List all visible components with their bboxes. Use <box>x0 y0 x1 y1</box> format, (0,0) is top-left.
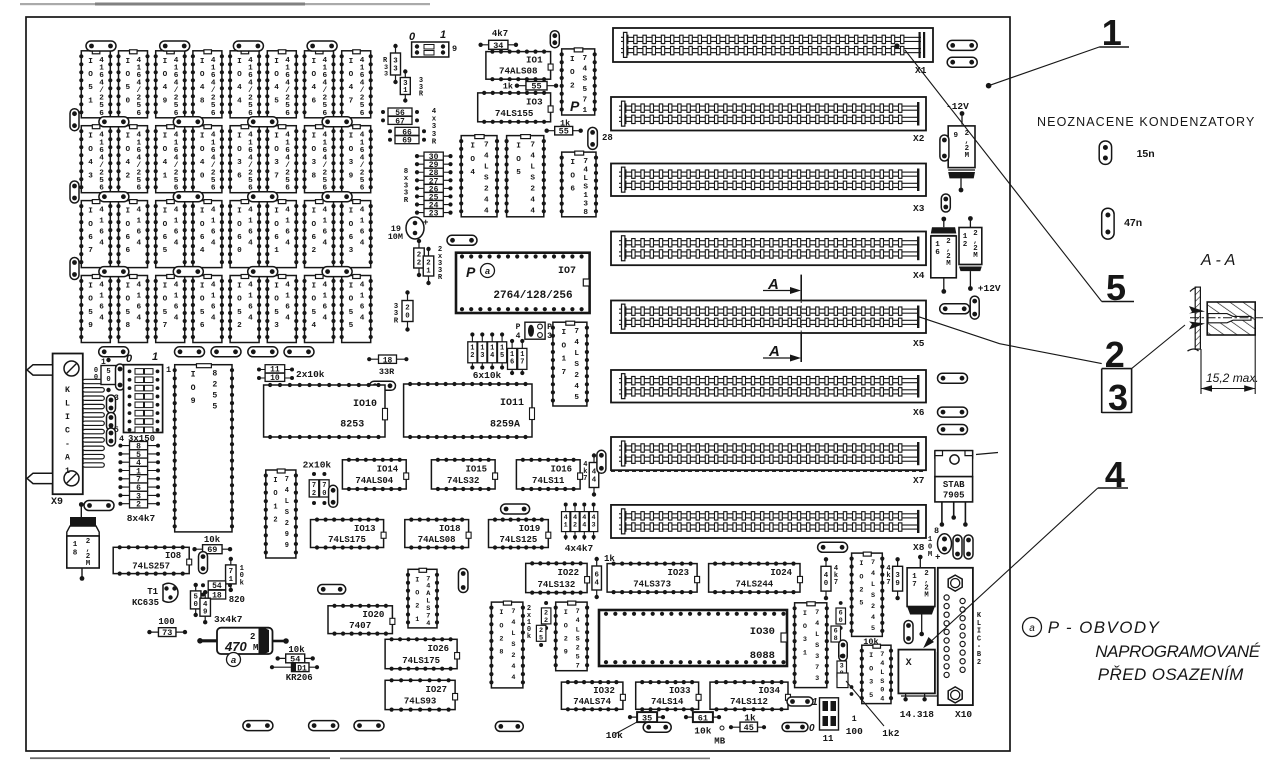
DRAM IO49 4164/256 <box>154 50 187 118</box>
svg-text:4: 4 <box>484 208 489 216</box>
IC IO35 74LS04 <box>860 644 893 703</box>
svg-text:O: O <box>163 146 168 154</box>
svg-text:3: 3 <box>895 572 900 580</box>
svg-text:2: 2 <box>136 501 141 510</box>
IC IO34 74LS112 <box>710 680 791 711</box>
svg-text:O: O <box>274 146 279 154</box>
svg-text:O: O <box>349 71 354 79</box>
slot connector X8 <box>611 505 926 553</box>
svg-text:4: 4 <box>285 207 290 215</box>
svg-text:2: 2 <box>237 322 242 330</box>
jumper wire row gap 2-3 <box>248 192 278 202</box>
svg-text:T1: T1 <box>147 587 158 597</box>
svg-text:4: 4 <box>592 477 597 485</box>
svg-text:+: + <box>935 553 940 563</box>
jumper wire x9 area a <box>107 395 116 413</box>
svg-text:O: O <box>125 71 130 79</box>
IC IO25 74LS245 <box>850 552 885 636</box>
svg-text:P: P <box>466 264 476 280</box>
jumper wire left edge 2 <box>70 181 79 203</box>
svg-text:5: 5 <box>539 635 543 643</box>
svg-text:5: 5 <box>237 309 242 317</box>
IC IO16 74LS11 <box>516 458 582 491</box>
svg-text:4x4k7: 4x4k7 <box>565 543 594 554</box>
svg-text:2: 2 <box>574 372 579 380</box>
jumper wire left of dipswitch <box>116 364 125 390</box>
capacitor 2 470M electrolytic <box>197 628 289 667</box>
svg-text:O: O <box>311 296 316 304</box>
svg-text:15,2 max.: 15,2 max. <box>1206 371 1259 385</box>
svg-text:9: 9 <box>895 580 899 588</box>
svg-text:6: 6 <box>99 304 104 312</box>
DRAM IO65 4164 <box>154 200 187 268</box>
svg-text:7: 7 <box>815 609 819 617</box>
DRAM IO38 4164/256 <box>302 125 335 193</box>
svg-text:4: 4 <box>1105 454 1125 495</box>
capacitor 16 2,2M electrolytic <box>931 217 957 294</box>
svg-text:8253: 8253 <box>340 420 364 431</box>
svg-text:I: I <box>570 159 575 167</box>
resistor 49 <box>200 590 211 624</box>
svg-text:O: O <box>237 71 242 79</box>
svg-text:I: I <box>125 58 130 66</box>
svg-text:6x10k: 6x10k <box>473 370 502 381</box>
svg-text:7: 7 <box>583 158 588 166</box>
svg-text:I: I <box>237 283 242 291</box>
svg-text:4: 4 <box>530 197 535 205</box>
svg-text:O: O <box>274 71 279 79</box>
DRAM IO53 4164 <box>265 275 298 343</box>
svg-text:IO30: IO30 <box>750 626 775 638</box>
svg-text:18: 18 <box>383 356 393 365</box>
DRAM IO66 4164 <box>116 200 149 268</box>
resistor 68 between IO31 IO25 <box>831 626 841 643</box>
svg-text:O: O <box>88 296 93 304</box>
svg-text:X4: X4 <box>913 270 925 281</box>
svg-text:5: 5 <box>88 309 93 317</box>
svg-text:I: I <box>803 610 807 618</box>
jumper wire row gap 3-1 <box>99 267 129 277</box>
svg-text:4: 4 <box>136 282 141 290</box>
svg-text:5: 5 <box>212 403 217 412</box>
svg-text:4: 4 <box>322 282 327 290</box>
svg-text:4: 4 <box>871 614 875 622</box>
jumper wire below +12V <box>940 304 970 314</box>
svg-text:5: 5 <box>163 309 168 317</box>
resistor 18b <box>201 590 226 600</box>
jumper wire row gap 2-4 <box>322 192 352 202</box>
svg-text:O: O <box>163 296 168 304</box>
svg-text:7: 7 <box>349 97 354 105</box>
svg-text:74LS155: 74LS155 <box>495 108 534 119</box>
svg-text:8x4k7: 8x4k7 <box>127 513 156 524</box>
svg-text:1: 1 <box>136 218 141 226</box>
resistor 23 (33R array) <box>415 209 453 219</box>
svg-text:L: L <box>871 581 875 589</box>
svg-text:7: 7 <box>285 476 289 484</box>
svg-text:I: I <box>415 576 419 584</box>
jumper wire right of C8 b <box>964 535 973 559</box>
DRAM IO42 4164/256 <box>116 125 149 193</box>
svg-text:4: 4 <box>576 617 580 625</box>
DRAM IO63 4164 <box>340 200 373 268</box>
resistor pair 11/10 (2x10k) <box>257 365 325 383</box>
svg-text:O: O <box>803 623 807 631</box>
svg-text:O: O <box>237 146 242 154</box>
svg-text:a: a <box>485 266 490 276</box>
svg-text:4: 4 <box>211 240 216 248</box>
svg-text:3: 3 <box>815 653 819 661</box>
svg-text:0: 0 <box>824 580 829 588</box>
resistor 26 (33R array) <box>415 184 453 194</box>
svg-text:0: 0 <box>880 687 884 695</box>
svg-text:61: 61 <box>698 714 708 724</box>
svg-text:IO26: IO26 <box>427 644 449 654</box>
svg-text:1: 1 <box>211 218 216 226</box>
svg-text:9: 9 <box>203 608 207 616</box>
svg-text:7: 7 <box>583 475 587 483</box>
svg-text:4: 4 <box>574 339 579 347</box>
resistor NR <box>837 673 853 696</box>
svg-text:6: 6 <box>174 304 179 312</box>
svg-text:L: L <box>583 175 588 183</box>
svg-text:1: 1 <box>152 351 158 363</box>
svg-text:5: 5 <box>349 309 354 317</box>
svg-text:1: 1 <box>963 233 968 241</box>
IC IO18 74ALS08 <box>405 518 471 550</box>
svg-text:9: 9 <box>285 531 289 539</box>
svg-text:I: I <box>499 609 503 617</box>
svg-text:4: 4 <box>136 315 141 323</box>
svg-text:6: 6 <box>136 110 141 118</box>
svg-text:6: 6 <box>200 234 205 242</box>
svg-text:74ALS08: 74ALS08 <box>418 535 456 545</box>
svg-text:6: 6 <box>594 572 599 580</box>
svg-text:I: I <box>274 208 279 216</box>
svg-text:4: 4 <box>511 619 515 627</box>
svg-text:74LS175: 74LS175 <box>328 535 366 545</box>
svg-text:5: 5 <box>574 394 579 402</box>
svg-text:5: 5 <box>106 368 110 376</box>
jumper wire below R35 <box>643 722 671 732</box>
svg-text:6: 6 <box>248 304 253 312</box>
jumper wire row gap 1-4 <box>322 117 352 127</box>
svg-text:C: C <box>65 427 70 436</box>
svg-text:IO15: IO15 <box>465 464 487 474</box>
slot connector X6 <box>611 370 926 418</box>
svg-text:4: 4 <box>594 580 599 588</box>
jumper wire left edge 3 <box>70 258 79 280</box>
svg-text:74ALS04: 74ALS04 <box>355 476 393 486</box>
svg-text:+12V: +12V <box>978 283 1001 294</box>
svg-text:3: 3 <box>384 71 388 79</box>
svg-text:5: 5 <box>582 86 587 94</box>
svg-text:5: 5 <box>88 84 93 92</box>
resistor 50 <box>190 583 201 617</box>
svg-text:1k: 1k <box>503 82 513 92</box>
svg-text:3: 3 <box>393 58 398 66</box>
svg-text:1: 1 <box>564 522 568 530</box>
svg-text:I: I <box>125 208 130 216</box>
resistor 34 body <box>478 40 518 51</box>
jumper wire left of IO20 <box>318 585 346 595</box>
leader line fragment near STAB <box>976 453 998 455</box>
DRAM IO43 4164/256 <box>79 125 112 193</box>
svg-text:O: O <box>163 71 168 79</box>
svg-text:0: 0 <box>839 617 843 625</box>
svg-text:O: O <box>163 221 168 229</box>
svg-text:L: L <box>977 620 981 628</box>
svg-text:74ALS08: 74ALS08 <box>499 66 538 77</box>
capacitor symbol 15n <box>1099 141 1154 164</box>
IC IO13 74LS175 <box>311 518 387 550</box>
svg-text:6: 6 <box>360 304 365 312</box>
svg-text:4: 4 <box>530 153 535 161</box>
svg-text:6: 6 <box>136 185 141 193</box>
svg-text:L: L <box>815 631 819 639</box>
svg-text:M: M <box>928 551 932 559</box>
svg-text:4: 4 <box>322 315 327 323</box>
svg-text:S: S <box>582 76 587 84</box>
svg-text:6: 6 <box>99 229 104 237</box>
jumper wire bottom middle <box>495 721 523 731</box>
jumper wire above IO10 <box>370 381 396 390</box>
resistor 69 body <box>192 545 232 556</box>
slot connector X7 <box>611 437 926 486</box>
IC IO22 74LS132 <box>526 561 590 594</box>
svg-text:4: 4 <box>880 660 884 668</box>
svg-text:O: O <box>470 156 475 164</box>
svg-text:1: 1 <box>99 218 104 226</box>
jumper wire bottom b <box>309 721 339 731</box>
svg-text:L: L <box>574 350 579 358</box>
resistor 27 (33R array) <box>415 176 453 186</box>
svg-text:C: C <box>977 635 981 643</box>
svg-text:M: M <box>86 560 91 568</box>
jumper wire right of X6 c <box>938 425 968 435</box>
svg-text:I: I <box>470 143 475 151</box>
svg-text:7: 7 <box>229 568 233 576</box>
svg-text:S: S <box>576 635 580 643</box>
svg-text:7: 7 <box>815 664 819 672</box>
resistor 21 (2x33R) <box>423 247 434 285</box>
svg-text:IO23: IO23 <box>667 568 689 578</box>
jumper wire below memory 2 <box>175 347 205 357</box>
svg-text:1: 1 <box>852 714 857 724</box>
svg-text:X5: X5 <box>913 338 925 349</box>
svg-text:4: 4 <box>311 322 316 330</box>
svg-text:4: 4 <box>174 282 179 290</box>
IC IO15 74LS32 <box>431 458 497 491</box>
svg-text:1: 1 <box>285 293 290 301</box>
svg-text:R: R <box>404 197 409 205</box>
jumper wire row gap 3-2 <box>173 267 203 277</box>
svg-text:7: 7 <box>576 608 580 616</box>
svg-text:P: P <box>570 98 580 114</box>
svg-text:6: 6 <box>174 229 179 237</box>
svg-text:X10: X10 <box>955 709 972 720</box>
svg-text:O: O <box>311 221 316 229</box>
svg-text:O: O <box>200 296 205 304</box>
IC IO5 74LS244 <box>505 135 546 217</box>
svg-text:6: 6 <box>311 234 316 242</box>
section mark A lower <box>763 333 801 362</box>
jumper wire below memory 4 <box>248 347 278 357</box>
svg-text:S: S <box>484 175 489 183</box>
svg-text:4: 4 <box>163 159 168 167</box>
svg-text:0: 0 <box>193 601 198 609</box>
svg-text:6: 6 <box>360 185 365 193</box>
svg-text:I: I <box>237 133 242 141</box>
svg-text:1: 1 <box>136 293 141 301</box>
jumper wire bottom a <box>243 721 273 731</box>
svg-text:74LS175: 74LS175 <box>402 656 440 666</box>
svg-text:IO18: IO18 <box>439 524 461 534</box>
svg-text:a: a <box>1029 623 1035 634</box>
svg-text:L: L <box>484 164 489 172</box>
IC IO21 74ALS74 <box>406 568 439 628</box>
svg-text:4: 4 <box>815 620 819 628</box>
svg-text:5: 5 <box>274 97 279 105</box>
svg-text:2: 2 <box>573 522 577 530</box>
crystal X 14.318 <box>898 650 937 720</box>
svg-text:O: O <box>499 622 503 630</box>
svg-text:O: O <box>859 573 863 581</box>
svg-text:9: 9 <box>349 172 354 180</box>
resistor 44 right of IO16 body <box>589 453 599 496</box>
svg-text:2: 2 <box>250 632 255 642</box>
svg-text:O: O <box>349 146 354 154</box>
jumper wire above IO19 <box>501 504 530 514</box>
svg-text:5: 5 <box>516 169 521 177</box>
capacitor 8 10M <box>928 526 952 563</box>
svg-text:1: 1 <box>248 218 253 226</box>
svg-text:1: 1 <box>285 218 290 226</box>
jumper wire left edge 1 <box>70 109 79 131</box>
svg-text:IO13: IO13 <box>354 524 376 534</box>
svg-text:7: 7 <box>88 247 93 255</box>
resistor 39 body <box>893 557 903 600</box>
section mark A upper <box>763 275 801 301</box>
svg-text:74LS257: 74LS257 <box>132 561 170 571</box>
svg-text:3: 3 <box>274 322 279 330</box>
svg-text:I: I <box>200 58 205 66</box>
svg-text:I: I <box>88 283 93 291</box>
DRAM IO57 4164 <box>154 275 187 343</box>
svg-text:5: 5 <box>349 322 354 330</box>
svg-text:2: 2 <box>470 352 474 360</box>
DRAM IO51 4164/256 <box>79 50 112 118</box>
DRAM IO36 4164/256 <box>228 125 261 193</box>
svg-text:0: 0 <box>809 723 815 734</box>
jumper wire right of C19 <box>447 235 477 245</box>
svg-text:7: 7 <box>520 359 524 367</box>
svg-text:100: 100 <box>846 726 863 737</box>
IC IO20 7407 <box>328 604 395 636</box>
jumper wire row gap 3-4 <box>322 267 352 277</box>
svg-text:7: 7 <box>582 97 587 105</box>
svg-text:X6: X6 <box>913 407 925 418</box>
jumper wire script1 <box>787 697 813 706</box>
svg-text:74LS93: 74LS93 <box>404 697 436 707</box>
svg-text:7: 7 <box>312 482 316 490</box>
svg-text:1: 1 <box>935 241 940 249</box>
svg-text:5: 5 <box>859 600 863 608</box>
svg-text:4: 4 <box>200 159 205 167</box>
IC IO9 8255 <box>173 364 235 532</box>
DRAM IO48 4164/256 <box>191 50 224 118</box>
svg-text:O: O <box>570 69 575 77</box>
IC IO17 74LS245 <box>551 321 589 406</box>
svg-text:K: K <box>65 386 70 395</box>
jumper wire top row 3 <box>233 41 263 51</box>
DRAM IO62 4164 <box>302 200 335 268</box>
svg-text:MB: MB <box>714 737 725 747</box>
svg-text:1: 1 <box>88 97 93 105</box>
capacitor 12 2,2M electrolytic <box>959 216 982 291</box>
svg-text:4: 4 <box>360 282 365 290</box>
svg-text:6: 6 <box>349 234 354 242</box>
DRAM IO47 4164/256 <box>340 50 373 118</box>
svg-text:4: 4 <box>99 207 104 215</box>
svg-text:1: 1 <box>360 293 365 301</box>
svg-text:74LS244: 74LS244 <box>735 579 773 589</box>
svg-text:2: 2 <box>963 241 968 249</box>
svg-text:S: S <box>815 642 819 650</box>
IC IO33 74LS14 <box>636 680 701 711</box>
svg-text:I: I <box>125 133 130 141</box>
jumper wire right of 77/20 <box>329 485 338 507</box>
DRAM IO52 4164 <box>228 275 261 343</box>
resistor 55 body upper <box>515 81 559 91</box>
svg-text:1: 1 <box>65 467 70 476</box>
voltage regulator STAB 7905 <box>935 451 973 527</box>
slot connector X5 <box>611 301 926 350</box>
resistor 31 (33R) <box>400 69 410 102</box>
resistor 33 (R33) <box>391 44 401 84</box>
svg-text:M: M <box>973 252 978 260</box>
svg-text:KC635: KC635 <box>132 598 159 608</box>
svg-text:7: 7 <box>484 142 489 150</box>
svg-text:2x10k: 2x10k <box>296 369 325 380</box>
IC IO2 74S571 (P) <box>560 48 597 115</box>
svg-text:7: 7 <box>574 328 579 336</box>
svg-text:I: I <box>274 283 279 291</box>
svg-text:4: 4 <box>248 282 253 290</box>
svg-text:55: 55 <box>531 82 541 92</box>
resistor 24 (33R array) <box>415 201 453 211</box>
svg-text:3: 3 <box>349 159 354 167</box>
svg-text:I: I <box>88 133 93 141</box>
slot connector X1 <box>613 28 933 76</box>
svg-text:STAB: STAB <box>943 480 965 490</box>
svg-text:34: 34 <box>493 41 503 51</box>
svg-text:8: 8 <box>311 172 316 180</box>
svg-text:820: 820 <box>229 595 245 605</box>
svg-text:4: 4 <box>237 84 242 92</box>
svg-text:8: 8 <box>583 209 588 217</box>
svg-text:2: 2 <box>530 186 535 194</box>
svg-text:5: 5 <box>274 309 279 317</box>
svg-text:IO10: IO10 <box>353 399 377 410</box>
svg-text:1: 1 <box>274 247 279 255</box>
svg-text:O: O <box>564 622 568 630</box>
svg-text:6: 6 <box>200 322 205 330</box>
svg-text:74LS11: 74LS11 <box>532 476 565 486</box>
callout numeral 4 <box>923 454 1128 648</box>
svg-text:2: 2 <box>426 260 430 268</box>
svg-text:L: L <box>285 498 289 506</box>
